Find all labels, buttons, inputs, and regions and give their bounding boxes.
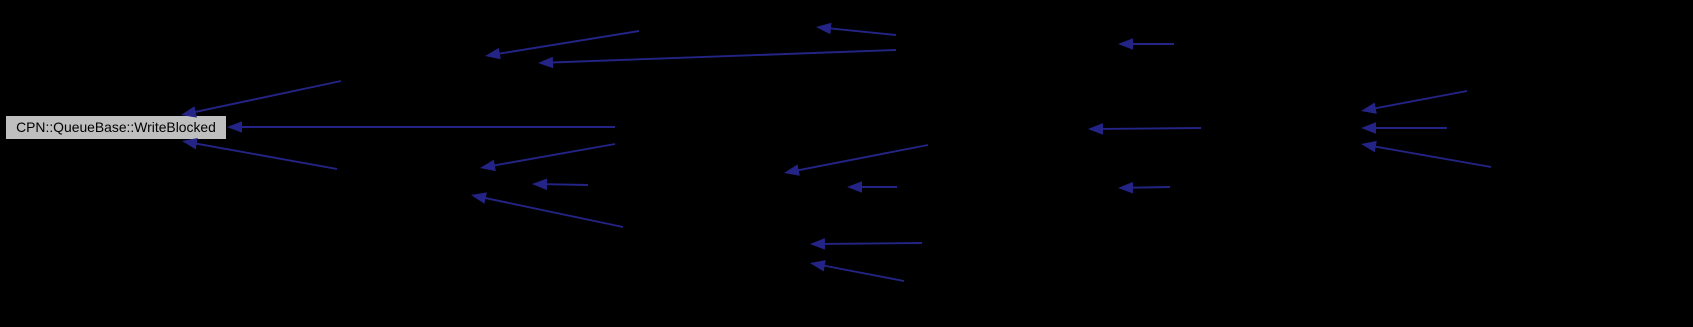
wire: edge into hidden col-2 node (long shallow) [538, 50, 896, 68]
wire: edge into hidden col-3 node (lower diagonal) [810, 260, 904, 281]
node CPN::QueueBase::WriteBlocked (current function, grey) [6, 116, 226, 139]
wire: edge into hidden col-2 node (lower diagonal) [471, 192, 623, 227]
wire: edge into hidden col-3 node (horizontal) [810, 238, 922, 250]
wire: edge from hidden caller (col 2) into WriteBlocked right edge [227, 121, 615, 133]
wire: edge into hidden col-2 node (top diagonal) [485, 31, 639, 59]
wire: edge into hidden col-5 node (horizontal) [1361, 122, 1447, 134]
svg-text:CPN::QueueBase::WriteBlocked: CPN::QueueBase::WriteBlocked [16, 119, 216, 135]
wire: edge into hidden col-3 node (short horizontal) [847, 181, 897, 193]
wire: edge into hidden col-3 node (top) [816, 23, 896, 35]
wire: edge into hidden col-5 node (lower diagonal) [1361, 141, 1491, 167]
wire: edge into hidden col-4 node (middle) [1088, 123, 1201, 135]
wire: edge into hidden col-3 node (diagonal) [784, 145, 928, 176]
wire: edge from hidden caller (col 2) into WriteBlocked bottom-right corner [182, 138, 337, 169]
wire: edge into hidden col-2 node (short horizontal) [532, 179, 588, 191]
wire: edge into hidden col-2 node (mid diagonal) [480, 144, 615, 171]
wire: edge from hidden caller (col 2) into WriteBlocked top-right corner [181, 81, 341, 118]
wire: edge into hidden col-4 node (top) [1118, 38, 1174, 50]
wire: edge into hidden col-4 node (lower) [1118, 182, 1170, 194]
wire: edge into hidden col-5 node (upper diagonal) [1361, 91, 1467, 114]
